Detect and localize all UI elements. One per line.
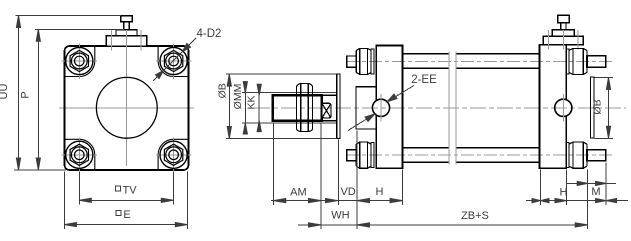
svg-text:WH: WH	[331, 210, 349, 222]
svg-text:4-D2: 4-D2	[197, 28, 222, 40]
port stem	[124, 22, 129, 30]
tie rod front bottom: rod stub	[347, 150, 356, 161]
tie-rod nut top-right	[160, 47, 187, 74]
rod thread KK	[273, 95, 322, 120]
front pilot boss edge	[337, 74, 340, 138]
svg-text:M: M	[591, 186, 600, 198]
svg-text:2-EE: 2-EE	[411, 74, 437, 86]
extension line rear head right face	[566, 170, 568, 205]
rear port stem	[561, 23, 566, 30]
extension line rod end	[272, 123, 274, 205]
bolt crosshair bottom-right	[156, 137, 192, 173]
rod wrench flats	[322, 103, 331, 118]
tie-rod nut bottom-left	[66, 141, 93, 168]
extension line rear nut face	[587, 170, 589, 230]
port cap	[121, 16, 132, 22]
extension line rear head left face	[540, 170, 542, 205]
bolt crosshair top-left	[62, 44, 98, 80]
rear port boss middle block	[552, 30, 574, 36]
rear port boss base block	[543, 36, 583, 45]
port boss base block	[106, 36, 147, 46]
dimension row H M rear	[526, 200, 628, 202]
tie rod rear bottom: nut	[569, 142, 587, 168]
front gland boss	[356, 87, 376, 129]
dimension row AM VD H	[271, 200, 403, 202]
tie rod front top: nut	[356, 48, 371, 74]
dimension UU	[14, 16, 121, 171]
tie rod rear top: rod stub	[587, 56, 606, 67]
tie rod rear top: nut	[569, 48, 587, 74]
dimension KK	[258, 85, 260, 131]
dimension E	[64, 172, 187, 229]
label square-E	[116, 211, 121, 216]
tie-rod nut top-left	[66, 47, 93, 74]
port drill lines over boss	[111, 30, 141, 50]
dimension row M	[566, 182, 616, 184]
leader 4-D2	[153, 38, 196, 81]
rear port drill lines	[549, 30, 578, 50]
extension line rear rod stub end	[605, 163, 607, 205]
tie rod rear bottom: rod stub	[587, 150, 606, 161]
centerline vertical of flange	[126, 30, 128, 166]
extension line gland face	[356, 131, 358, 230]
dimension row WH ZB+S	[298, 224, 588, 226]
rear port cap	[558, 15, 570, 22]
svg-text:P: P	[20, 91, 32, 98]
svg-text:UU: UU	[0, 84, 10, 100]
rear port circle EE	[555, 99, 572, 116]
corner boss bottom-right	[158, 139, 188, 169]
tie rod rear top: washer	[566, 49, 569, 74]
dimension TV	[79, 172, 173, 205]
port boss middle block	[116, 30, 137, 36]
front port circle EE	[372, 99, 389, 116]
leader 2-EE	[348, 86, 414, 131]
extension line thread end	[320, 123, 322, 229]
corner boss top-left	[65, 47, 95, 77]
svg-text:ZB+S: ZB+S	[461, 210, 489, 222]
front head plate	[376, 46, 402, 169]
piston rod section lower line	[322, 120, 338, 122]
piston rod section	[322, 94, 338, 96]
corner boss bottom-left	[65, 139, 95, 169]
corner boss top-right	[158, 47, 188, 77]
centerline horizontal of flange	[59, 107, 194, 109]
svg-text:H: H	[376, 186, 384, 198]
cylinder bore circle	[96, 77, 157, 138]
rod nut	[297, 83, 313, 131]
rear port circle crosshair	[562, 94, 564, 122]
dimension B front	[226, 74, 337, 138]
front port circle crosshair	[380, 94, 382, 122]
extension lines rod diameter MM	[242, 93, 337, 123]
tie rod centerline top	[346, 61, 612, 63]
cushion plane thin lines	[449, 52, 456, 165]
tie rod top between heads	[403, 54, 540, 69]
bolt crosshair top-right	[156, 44, 192, 80]
svg-text:KK: KK	[246, 95, 258, 109]
svg-text:ØMM: ØMM	[232, 84, 244, 110]
tie rod bottom between heads	[403, 148, 540, 163]
rear head plate	[540, 45, 567, 168]
svg-text:H: H	[560, 187, 568, 199]
extension line pilot face	[338, 140, 340, 205]
bolt crosshair bottom-left	[62, 137, 98, 173]
flange square body	[65, 46, 189, 170]
svg-text:ØB: ØB	[217, 83, 229, 98]
svg-text:ØB: ØB	[592, 99, 604, 114]
extension line front head face	[402, 170, 404, 205]
tie rod front top: rod stub	[347, 56, 356, 67]
dimension B	[595, 77, 614, 138]
tie rod rear bottom: washer	[566, 143, 569, 168]
svg-text:TV: TV	[123, 185, 138, 197]
rear pilot boss edge	[590, 77, 594, 138]
main axis centerline	[254, 107, 626, 109]
tie rod front bottom: washer	[371, 143, 374, 168]
dimension MM	[244, 81, 246, 135]
tie-rod nut bottom-right	[160, 141, 187, 168]
tie rod front top: washer	[371, 49, 374, 74]
tie rod front bottom: nut	[356, 142, 371, 168]
svg-text:AM: AM	[290, 187, 307, 199]
dimension P	[35, 29, 124, 170]
svg-text:VD: VD	[340, 186, 355, 198]
label square-TV	[115, 186, 120, 191]
port drill hidden lines	[110, 30, 112, 50]
tie rod centerline bottom	[346, 154, 612, 156]
svg-text:E: E	[123, 209, 130, 221]
